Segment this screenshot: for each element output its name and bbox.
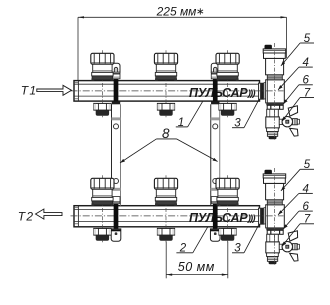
dimension 225 мм: dimension line: [78, 16, 287, 18]
drain valve butterfly wings (bottom): [288, 231, 298, 261]
dimension 50 мм: left extension line: [165, 242, 167, 279]
strap left joint bands: [112, 117, 121, 190]
end union nut part 3 (bottom): [259, 208, 265, 224]
svg-text:ПУЛЬСАР: ПУЛЬСАР: [189, 86, 248, 100]
callout 2 (return bar): [176, 227, 207, 254]
strap left foot below bar 1: [112, 101, 120, 104]
callout 5 lower: [281, 159, 314, 191]
callout 7 lower: [282, 214, 314, 247]
drain valve handle hub (bottom): [282, 242, 292, 252]
union nut 2a: [157, 103, 174, 115]
outlet axis 3b: [227, 175, 229, 242]
strap right clamp above bar 2: [211, 197, 219, 204]
manifold bar 2 (return collector, part 2): [74, 206, 260, 227]
valve cap 3a: [216, 53, 239, 80]
strap left clamp above bar 2: [112, 197, 120, 204]
strap left vertical rails: [112, 104, 121, 206]
end union nut part 3 (top): [259, 83, 265, 99]
drain valve part 7 body (bottom): [266, 234, 280, 256]
outlet axis 2a: [165, 50, 167, 117]
air vent body part 5 (bottom): [264, 178, 286, 200]
outlet axis 3a: [227, 50, 229, 117]
union nut 1b: [94, 228, 111, 240]
dimension star mark: [198, 8, 204, 14]
manifold bar 1 (supply collector, part 1): [74, 81, 260, 102]
union nut 3b: [219, 228, 236, 240]
union nut 3a: [219, 103, 236, 115]
strap right joint bands: [211, 117, 220, 190]
valve cap 1b: [91, 178, 114, 205]
end nipple (bottom): [264, 208, 266, 224]
vent thread rings (top): [267, 75, 282, 80]
dimension 225 мм: right arrowhead: [281, 16, 287, 18]
air vent top flange (top): [263, 49, 286, 53]
bar 1 centerline: [71, 90, 284, 92]
strap left bottom tab: [111, 229, 121, 241]
strap right vertical rails: [211, 104, 220, 206]
dimension 50 мм: dimension line: [166, 274, 228, 276]
strap right bottom tab: [210, 229, 220, 241]
drain connection part 6 locking band (bottom): [266, 228, 283, 230]
bar 2 centerline: [71, 215, 284, 217]
strap left clamp over bar 1: [114, 79, 119, 102]
dimension 50 мм: right extension line: [227, 242, 229, 279]
elbow body part 4 (bottom): [266, 205, 285, 228]
strap right foot below bar 1: [211, 101, 219, 104]
callout 4 upper: [278, 57, 313, 90]
callout 5 upper: [281, 33, 314, 66]
drain valve stem (bottom): [279, 244, 282, 249]
dimension 225 мм: left extension line: [77, 17, 79, 80]
flow arrow T2 (points left): [36, 209, 63, 219]
strap left clamp over bar 2: [114, 204, 119, 230]
valve cap 2a: [154, 53, 177, 80]
drain valve handle hub (top): [282, 117, 292, 127]
flow arrow T1 (points right): [37, 85, 72, 95]
outlet axis 1b: [101, 175, 103, 242]
svg-text:225 мм: 225 мм: [156, 4, 197, 18]
air vent black cap (bottom): [265, 170, 272, 174]
strap right clamp over bar 1: [213, 79, 218, 102]
callout 7 upper: [282, 87, 314, 121]
end nipple (top): [264, 83, 266, 99]
outlet axis 1a: [101, 50, 103, 117]
air vent black cap (top): [265, 45, 272, 49]
svg-text:))): ))): [247, 88, 256, 99]
callout 6 upper: [283, 75, 313, 104]
outlet axis 2b: [165, 175, 167, 242]
valve cap 1a: [91, 53, 114, 80]
callout 6 lower: [283, 201, 313, 229]
svg-text:))): ))): [247, 213, 256, 224]
callout 4 lower: [278, 183, 313, 215]
svg-text:ПУЛЬСАР: ПУЛЬСАР: [189, 211, 248, 225]
drain valve part 7 body (top): [266, 109, 280, 131]
air vent body part 5 (top): [264, 53, 286, 75]
union nut 2b: [157, 228, 174, 240]
logo ПУЛЬСАР on bar 2: [189, 211, 255, 225]
vent thread rings (bottom): [267, 200, 282, 205]
drain valve handle knob (bottom): [293, 244, 300, 250]
dimension 50 мм: left arrowhead: [166, 274, 172, 276]
drain connection part 6 nut (bottom): [267, 230, 283, 234]
callout 8 (mounting straps): [120, 126, 218, 163]
air vent top flange (bottom): [263, 174, 286, 178]
svg-text:Т 2: Т 2: [18, 209, 34, 223]
mounting strap right (part 8) top tab: [211, 63, 219, 78]
strap left screw holes: [114, 124, 119, 184]
callout 3 lower (end union): [232, 225, 259, 255]
svg-text:50 мм: 50 мм: [178, 260, 215, 274]
dimension 225 мм: left arrowhead: [78, 16, 84, 18]
valve cap 3b: [216, 178, 239, 205]
callout 1 (supply bar): [176, 102, 203, 129]
dimension 50 мм: right arrowhead: [222, 274, 228, 276]
drain connection part 6 nut (top): [267, 105, 283, 109]
strap right clamp over bar 2: [213, 204, 218, 230]
union nut 1a: [94, 103, 111, 115]
svg-text:Т 1: Т 1: [21, 83, 36, 97]
strap right screw holes: [213, 124, 218, 184]
drain spout (top): [267, 132, 277, 140]
drain spout (bottom): [267, 257, 277, 265]
vent column axis (bottom): [274, 168, 276, 265]
valve cap 2b: [154, 178, 177, 205]
vent column axis (top): [274, 43, 276, 140]
drain valve stem (top): [279, 119, 282, 124]
drain valve handle knob (top): [293, 119, 300, 125]
mounting strap left (part 8) top tab: [112, 63, 120, 78]
elbow body part 4 (top): [266, 80, 285, 103]
logo ПУЛЬСАР on bar 1: [189, 86, 255, 100]
drain connection part 6 locking band (top): [266, 103, 283, 105]
dimension 225 мм: right extension line: [286, 17, 288, 58]
drain valve butterfly wings (top): [288, 106, 298, 136]
callout 3 upper (end union): [232, 100, 259, 130]
